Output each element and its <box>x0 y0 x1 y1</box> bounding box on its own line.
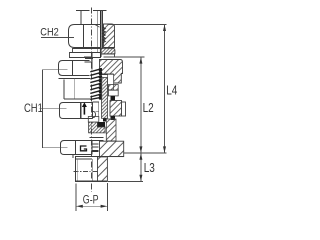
CH1 leader to middle hex <box>40 108 67 110</box>
extension line at shoulder (L2/L4 bottom, L3 top) <box>124 152 167 154</box>
hex bottom corner tick <box>72 155 74 158</box>
spring seat ticks near axis <box>84 55 92 57</box>
seal square 1 (black) <box>110 96 115 101</box>
CH1 leader to bottom hex <box>43 147 68 149</box>
poppet seal (black) <box>97 122 105 127</box>
nut CH2 section half (hatched) <box>104 24 115 48</box>
tube thread line <box>101 11 103 48</box>
central guide band (hatched) <box>102 78 108 119</box>
tube bore line (section side) <box>97 11 99 53</box>
lower hex section outer face <box>122 102 126 116</box>
seal square 2 (black) <box>110 116 115 120</box>
washer A section (hatched dense) <box>100 48 115 54</box>
washer B band (exterior half) <box>70 53 102 58</box>
spring top seat bracket <box>85 57 93 59</box>
svg-text:L4: L4 <box>166 85 177 98</box>
L2 dimension line <box>140 57 142 153</box>
center line (vertical axis, dash-dot) <box>91 8 93 193</box>
valve stem on axis <box>91 53 93 70</box>
throttle symbol in bottom box <box>81 146 87 151</box>
extension line L3 bottom <box>108 181 143 183</box>
stacked seat lines right of bottom box <box>92 143 99 145</box>
poppet skirt (hatched parallelogram) <box>89 122 106 133</box>
bulge on right of arrow box <box>93 111 96 117</box>
block bottom face line <box>100 73 114 75</box>
svg-text:L2: L2 <box>143 102 154 115</box>
body neck lines between hexes <box>63 80 65 99</box>
lower hex section lobe (hatched) <box>110 101 122 117</box>
tube top end bar <box>76 10 90 11</box>
washer A below nut (exterior half) <box>73 49 102 53</box>
upper hex section block (hatched) <box>100 60 123 84</box>
tube right outer wall <box>100 11 102 57</box>
thread engagement sawtooth <box>103 27 106 43</box>
bottom hex section (hatched) <box>100 141 124 156</box>
G-P extension line right <box>106 183 108 211</box>
stud section band (hatched) <box>98 157 108 181</box>
CH1 leader to upper hex <box>43 69 68 71</box>
CH1 leader riser <box>42 70 44 148</box>
white counterbore slot <box>108 74 114 90</box>
L3 dimension line <box>140 153 142 181</box>
flow arrow (up) <box>82 102 87 114</box>
valve stem lines <box>98 102 100 116</box>
G-P dimension line <box>76 205 107 207</box>
tube left wall <box>80 11 82 25</box>
extension line for L2 top <box>104 56 145 58</box>
stud thread root line <box>77 159 79 181</box>
stud bore line <box>92 159 94 181</box>
CH2 leader line <box>41 36 74 38</box>
white piece below washer <box>108 90 118 96</box>
threaded stud <box>75 157 77 181</box>
upper hex CH1 exterior half <box>58 61 89 79</box>
hex bottom face lines <box>75 156 124 158</box>
extension line L4 top <box>107 23 166 25</box>
spring (zigzag coils) <box>90 69 102 100</box>
black bit right of poppet <box>103 118 107 121</box>
L4 dimension line <box>164 25 166 153</box>
stud bottom edge <box>75 180 108 182</box>
svg-text:L3: L3 <box>144 162 155 175</box>
svg-text:CH2: CH2 <box>40 27 59 39</box>
lower guide band (hatched) <box>106 119 116 141</box>
seat plate lines <box>89 137 103 139</box>
wire: horizontal side-port center line <box>74 171 99 173</box>
svg-text:G-P: G-P <box>83 194 99 206</box>
poppet upper piece <box>88 117 99 123</box>
G-P extension line left <box>75 184 77 211</box>
nut CH2 exterior half <box>69 24 102 47</box>
spring cut-wire dots <box>99 68 103 100</box>
washer piece on poppet (hatched) <box>108 85 118 91</box>
bottom hex box (CH1 third) <box>61 141 93 155</box>
G-P arrowheads <box>76 205 83 208</box>
arrow box pair (CH1 middle hex) <box>60 102 93 119</box>
washer B section outline <box>101 54 115 57</box>
